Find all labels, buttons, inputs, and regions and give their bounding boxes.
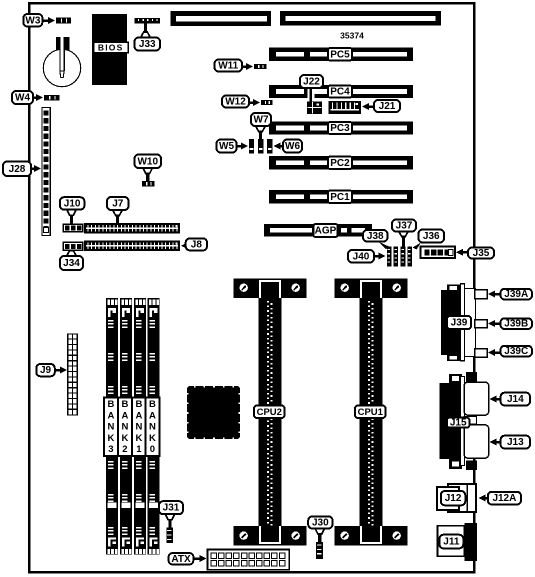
label J31 xyxy=(168,518,171,527)
svg-text:J12A: J12A xyxy=(492,493,516,504)
label J15 xyxy=(447,418,470,429)
port tab J39B xyxy=(475,320,487,328)
label J12 xyxy=(441,491,466,505)
svg-text:J12: J12 xyxy=(445,493,462,504)
svg-text:W7: W7 xyxy=(254,115,269,126)
label W7 xyxy=(259,130,262,140)
AGP slot xyxy=(264,224,372,237)
PCI slot PC2 xyxy=(269,156,413,170)
svg-text:J35: J35 xyxy=(473,248,490,259)
svg-text:N: N xyxy=(149,422,156,433)
label J13 xyxy=(490,439,497,446)
svg-text:W10: W10 xyxy=(137,156,158,167)
label J30 xyxy=(318,533,321,542)
port J14 connector xyxy=(464,382,489,415)
svg-text:J31: J31 xyxy=(163,503,180,514)
svg-text:A: A xyxy=(107,410,114,421)
svg-text:CPU2: CPU2 xyxy=(257,407,282,418)
svg-text:0: 0 xyxy=(150,444,155,455)
svg-text:N: N xyxy=(107,422,114,433)
connector J34 xyxy=(63,242,83,250)
label J14 xyxy=(490,396,497,403)
connector ATX xyxy=(208,550,290,570)
DIMM socket BANK3 xyxy=(104,298,119,555)
svg-text:B: B xyxy=(107,399,114,410)
label J39B xyxy=(488,320,495,327)
connector J35 xyxy=(421,247,456,259)
svg-text:J38: J38 xyxy=(367,231,384,242)
PCI slot PC5 xyxy=(269,48,413,62)
label J38 xyxy=(363,230,388,242)
svg-text:PC2: PC2 xyxy=(330,158,350,169)
label ATX xyxy=(200,555,207,562)
jumper block W5-W6-W7 xyxy=(249,139,273,154)
label J11 xyxy=(439,535,463,549)
svg-text:J33: J33 xyxy=(139,39,156,50)
label J9 xyxy=(60,367,67,374)
battery pin xyxy=(60,37,64,78)
connector J9 xyxy=(68,334,77,415)
jumper W3 pins xyxy=(56,18,71,24)
svg-text:B: B xyxy=(135,399,142,410)
svg-text:J34: J34 xyxy=(63,258,80,269)
label J36 xyxy=(419,230,445,243)
svg-text:J7: J7 xyxy=(112,199,124,210)
label J12A xyxy=(479,495,486,502)
BIOS label xyxy=(94,42,129,53)
connector J15 block xyxy=(439,372,477,470)
label J34 xyxy=(70,250,73,252)
chipset U1 xyxy=(187,386,241,440)
label J8 xyxy=(181,242,188,249)
label W3 xyxy=(48,17,55,24)
PCI slot PC4 xyxy=(269,85,413,98)
PCI slot PC3 xyxy=(269,122,413,135)
svg-text:J30: J30 xyxy=(312,517,329,528)
pin strips J40 cluster xyxy=(387,247,412,267)
connector J30 xyxy=(316,542,323,559)
svg-text:PC3: PC3 xyxy=(330,123,350,134)
header J7 xyxy=(84,223,180,234)
svg-text:W5: W5 xyxy=(219,141,234,152)
label J37 xyxy=(402,235,405,247)
svg-text:J39B: J39B xyxy=(504,319,528,330)
port tab J39C xyxy=(475,349,487,358)
svg-text:K: K xyxy=(135,433,142,444)
connector J12 xyxy=(437,484,476,512)
svg-text:J13: J13 xyxy=(507,437,524,448)
svg-text:J15: J15 xyxy=(450,418,467,429)
svg-text:J40: J40 xyxy=(353,251,370,262)
battery circle xyxy=(43,49,80,86)
label J39C xyxy=(488,349,495,356)
header J8 xyxy=(84,241,180,252)
svg-text:A: A xyxy=(149,410,156,421)
component J22 xyxy=(307,102,322,115)
connector J39 block xyxy=(441,284,476,361)
connector J31 xyxy=(166,528,173,544)
svg-text:K: K xyxy=(121,433,128,444)
svg-text:1: 1 xyxy=(136,444,142,455)
svg-text:J22: J22 xyxy=(303,77,320,88)
svg-text:K: K xyxy=(107,433,114,444)
DIMM socket BANK0 xyxy=(146,298,161,555)
svg-text:J39A: J39A xyxy=(504,289,528,300)
label W6 xyxy=(274,143,281,150)
svg-text:K: K xyxy=(149,433,156,444)
connector J10 xyxy=(63,224,83,232)
svg-text:J14: J14 xyxy=(507,394,524,405)
svg-text:AGP: AGP xyxy=(315,226,337,237)
connector J33 xyxy=(135,18,161,24)
DIMM socket BANK1 xyxy=(132,298,147,555)
label W11 xyxy=(246,63,253,70)
DIMM socket BANK2 xyxy=(118,298,133,555)
svg-text:A: A xyxy=(135,410,142,421)
svg-text:J39C: J39C xyxy=(504,346,528,357)
notch between J14 J13 xyxy=(464,417,477,425)
label W10 xyxy=(146,172,149,181)
svg-text:J39: J39 xyxy=(451,318,468,329)
connector J11 xyxy=(438,523,478,561)
label J21 xyxy=(362,103,369,110)
svg-text:W12: W12 xyxy=(225,97,246,108)
svg-text:W3: W3 xyxy=(25,15,40,26)
label J39A xyxy=(488,291,495,298)
svg-text:J9: J9 xyxy=(40,365,52,376)
jumper W4 pins xyxy=(44,95,60,101)
jumper W11 pins xyxy=(254,64,267,69)
svg-text:W4: W4 xyxy=(15,93,30,104)
label W12 xyxy=(253,99,260,106)
label J40 xyxy=(379,253,386,260)
PCI slot PC1 xyxy=(269,190,413,204)
svg-text:PC5: PC5 xyxy=(330,49,350,60)
label W5 xyxy=(241,143,248,150)
svg-text:J37: J37 xyxy=(396,221,413,232)
svg-text:CPU1: CPU1 xyxy=(358,407,384,418)
svg-text:PC1: PC1 xyxy=(330,192,350,203)
svg-text:J11: J11 xyxy=(443,537,460,548)
label J7 xyxy=(116,214,119,223)
connector J21 xyxy=(329,101,362,114)
svg-text:PC4: PC4 xyxy=(330,87,350,98)
jumper W10 pins xyxy=(142,181,155,187)
svg-text:B: B xyxy=(149,399,156,410)
svg-text:J21: J21 xyxy=(379,101,396,112)
CPU slot CPU2 xyxy=(233,278,306,545)
port tab J39A xyxy=(475,290,487,299)
label J33 xyxy=(144,24,147,34)
port J13 connector xyxy=(464,425,489,458)
ISA slot bar 1 xyxy=(171,11,272,26)
svg-text:BIOS: BIOS xyxy=(98,43,124,53)
svg-text:2: 2 xyxy=(122,444,127,455)
svg-text:3: 3 xyxy=(108,444,113,455)
svg-text:N: N xyxy=(121,422,128,433)
battery top clip xyxy=(56,37,70,50)
svg-text:W11: W11 xyxy=(218,61,238,72)
svg-text:ATX: ATX xyxy=(171,554,191,565)
svg-text:J28: J28 xyxy=(9,164,26,175)
label J39 xyxy=(447,316,471,329)
svg-text:B: B xyxy=(121,399,128,410)
connector J28 xyxy=(42,108,50,236)
svg-text:J8: J8 xyxy=(191,239,203,250)
svg-text:A: A xyxy=(121,410,128,421)
svg-text:J36: J36 xyxy=(423,231,440,242)
label J10 xyxy=(70,214,73,225)
svg-text:35374: 35374 xyxy=(340,31,364,41)
jumper W12 pins xyxy=(261,100,273,105)
label J35 xyxy=(456,249,463,256)
CPU slot CPU1 xyxy=(334,278,407,545)
svg-text:W6: W6 xyxy=(285,141,300,152)
label W4 xyxy=(36,94,43,101)
ISA slot bar 2 xyxy=(280,11,441,26)
svg-text:N: N xyxy=(135,422,142,433)
svg-text:J10: J10 xyxy=(64,198,81,209)
label J22 xyxy=(307,87,314,102)
label J28 xyxy=(34,165,41,172)
BIOS chip xyxy=(92,14,127,85)
